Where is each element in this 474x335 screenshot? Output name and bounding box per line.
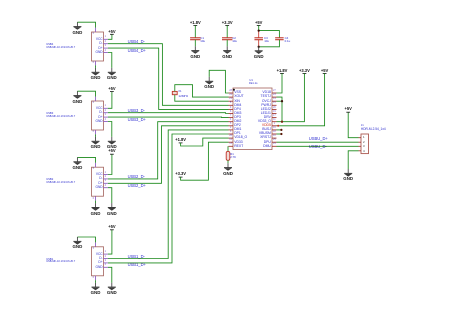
wire USB4 bottom shield text [0, 0, 474, 1]
wire USB3 bottom shield text [0, 0, 474, 1]
node VBUSM no-connect [280, 133, 282, 135]
IC U1 FE1.1s hub chip body and pins [229, 88, 277, 150]
label USB2 designator text [0, 0, 474, 1]
wire C2 to ground [226, 40, 228, 47]
junction OVCJ text [0, 0, 474, 1]
ground flag header [344, 169, 352, 177]
connector J1 header body and pins [359, 134, 369, 154]
junction C3 bottom text [0, 0, 474, 1]
wire USB3 GND pin [108, 122, 112, 137]
net label USB1_D+ text [0, 0, 474, 1]
wire USB2 VCC supply text [0, 0, 474, 1]
wire USB2 shield to ground text [0, 0, 474, 1]
ground flag C2 [223, 46, 231, 54]
wire USB4 VCC supply [108, 34, 112, 39]
wire C1 to ground [194, 40, 196, 47]
wire USB4 shield to ground [77, 22, 95, 27]
wire USB3_D- to DM3 [108, 112, 229, 115]
connector USB2 body and pins text [0, 0, 474, 1]
label U1 designator text [0, 0, 474, 1]
label USB3 designator text [0, 0, 474, 1]
wire USB2 bottom shield [95, 201, 97, 204]
junction C3 top [258, 29, 260, 31]
ground flag USB3 bottom [92, 137, 100, 145]
capacitor C4 [275, 38, 284, 40]
ground flag USB1 bottom [92, 283, 100, 291]
capacitor C1 [190, 38, 200, 40]
wire BUSJ stub [277, 129, 282, 131]
power flag +5V USB3 [110, 91, 114, 93]
label X1 designator text [0, 0, 474, 1]
crystal X1 [172, 91, 177, 94]
wire REXT to R1 [227, 146, 229, 151]
net label USB4_D+ text [0, 0, 474, 1]
power flag +5V over C3 [257, 24, 261, 26]
wire USB3 shield to ground [77, 91, 95, 96]
wire USB2 shield to ground [77, 157, 95, 162]
wire USB3 shield to ground text [0, 0, 474, 1]
resistor R1 [226, 151, 230, 160]
wire USB4 shield to ground text [0, 0, 474, 1]
ground flag C3 C4 [255, 46, 263, 54]
ground flag USB2 shield [73, 157, 81, 165]
ground flag C1 text [0, 0, 474, 1]
ground flag USB3 shield [73, 91, 81, 99]
net label USBU_D- text [0, 0, 474, 1]
power flag +5V USB2 [110, 153, 114, 155]
wire X1 bottom to XIN [175, 95, 229, 102]
power flag +1.8V to VD18_O [179, 142, 183, 144]
wire USB3_D+ to DP3 [108, 116, 229, 119]
ground flag C1 [191, 46, 199, 54]
wire R1 to ground [227, 160, 229, 163]
wire VSS to ground text [0, 0, 474, 1]
connector J1 header body and pins text [0, 0, 474, 1]
wire USB2 bottom shield text [0, 0, 474, 1]
ground flag C3 C4 text [0, 0, 474, 1]
power flag +5V right of U1 [323, 72, 327, 74]
ground flag USB4 right [108, 68, 116, 76]
connector USB3 body and pins [92, 97, 108, 135]
wire USB4_D+ to DP4 [108, 48, 229, 109]
wire R1 to ground text [0, 0, 474, 1]
wire USB1 bottom shield [95, 280, 97, 283]
wire OVCJ stub [277, 100, 283, 102]
wire C3 C4 top rail [259, 31, 280, 38]
wire +1.8V to VD18_O pin text [0, 0, 474, 1]
connector USB3 body and pins text [0, 0, 474, 1]
power flag +1.8V right of U1 [280, 72, 284, 74]
label C3 value text [0, 0, 474, 1]
junction VD33_O text [0, 0, 474, 1]
power flag +3.3V over C2 [225, 24, 229, 26]
ground flag C2 text [0, 0, 474, 1]
wire X1 top to XOUT [175, 85, 229, 97]
junction C3 bottom [258, 46, 260, 48]
wire USB1_D- to DM1 [108, 130, 229, 259]
wire USB2 GND pin [108, 188, 112, 203]
net label USBU_D+ text [0, 0, 474, 1]
wire USB1 GND pin text [0, 0, 474, 1]
wire USB4 VCC supply text [0, 0, 474, 1]
wire C3 bottom lead [258, 40, 260, 47]
wire USB1 VCC supply [108, 230, 112, 254]
wire C2 to ground text [0, 0, 474, 1]
label C2 value text [0, 0, 474, 1]
wire +5V to VDD5 [277, 73, 325, 125]
wire +3.3V to C2 [226, 25, 228, 37]
power flag +5V USB1 [110, 229, 114, 231]
wire USB1 VCC supply text [0, 0, 474, 1]
wire DMU to header pin 3 [277, 145, 359, 147]
capacitor C2 [222, 38, 232, 40]
wire VSS to ground [209, 70, 228, 93]
wire DPU to header pin 2 [277, 141, 359, 143]
wire C3 top lead [258, 31, 260, 38]
wire USB1 shield to ground text [0, 0, 474, 1]
wire C1 to ground text [0, 0, 474, 1]
ground flag USB4 bottom [92, 68, 100, 76]
label USB4 designator text [0, 0, 474, 1]
node VDD5 pin dot [277, 125, 279, 127]
ground flag USB4 shield [73, 22, 81, 30]
wire VBUSM stub [277, 133, 282, 135]
net label USB2_D+ text [0, 0, 474, 1]
wire USB2_D+ to DP2 [108, 126, 229, 184]
power flag +5V USB4 [110, 33, 114, 35]
junction OVCJ [281, 100, 283, 102]
wire USB3 VCC supply text [0, 0, 474, 1]
ground flag USB1 shield [73, 237, 81, 245]
power flag +5V header [346, 111, 350, 113]
connector USB2 body and pins [92, 163, 108, 201]
wire USB1 shield to ground [77, 237, 95, 242]
label R1 value text [0, 0, 474, 1]
connector USB1 body and pins text [0, 0, 474, 1]
wire USB4 GND pin [108, 53, 112, 68]
ground flag USB1 right [108, 283, 116, 291]
wire TESTJ OVCJ tie [277, 97, 283, 122]
ground flag USB2 bottom [92, 203, 100, 211]
wire C3 C4 bottom rail [259, 40, 280, 47]
label J1 designator text [0, 0, 474, 1]
wire +1.8V to VD18 [277, 73, 283, 93]
wire USB3 bottom shield [95, 134, 97, 137]
wire USB3 VCC supply [108, 92, 112, 109]
label C4 value text [0, 0, 474, 1]
ground flag near U1 VSS [205, 77, 213, 85]
net label USB3_D- text [0, 0, 474, 1]
wire +5V to junction [258, 25, 260, 30]
capacitor C3 [254, 38, 263, 40]
wire header pin4 to ground text [0, 0, 474, 1]
wire USB4 GND pin text [0, 0, 474, 1]
wire header pin1 to +5V [348, 112, 358, 138]
power flag +3.3V right of U1 [303, 72, 307, 74]
ground flag R1 [224, 163, 232, 171]
wire USB2 GND pin text [0, 0, 474, 1]
net label USB3_D+ text [0, 0, 474, 1]
wire USB2 VCC supply [108, 154, 112, 174]
wire +3.3V to VD33 pin [181, 142, 229, 180]
wire USB3 GND pin text [0, 0, 474, 1]
net label USB4_D- text [0, 0, 474, 1]
ground flag USB2 right [108, 203, 116, 211]
label USB1 designator text [0, 0, 474, 1]
net label USB1_D- text [0, 0, 474, 1]
label C1 value text [0, 0, 474, 1]
connector USB4 body and pins text [0, 0, 474, 1]
ground flag USB3 right [108, 137, 116, 145]
wire +1.8V to C1 [194, 25, 196, 37]
power flag +3.3V to VD33 [179, 176, 183, 178]
wire header pin1 to +5V text [0, 0, 474, 1]
net label USB2_D- text [0, 0, 474, 1]
IC U1 FE1.1s hub chip body and pins text [0, 0, 474, 1]
wire USB2_D- to DM2 [108, 122, 229, 179]
power flag +1.8V over C1 [193, 24, 197, 26]
wire USB1 GND pin [108, 267, 112, 282]
ground flag R1 text [0, 0, 474, 1]
wire USB4_D- to DM4 [108, 44, 229, 106]
wire USB1 bottom shield text [0, 0, 474, 1]
wire USB4 bottom shield [95, 65, 97, 68]
wire header pin4 to ground [348, 151, 358, 169]
wire +3.3V to VD33_O [277, 73, 305, 121]
node BUSJ no-connect [280, 129, 282, 131]
connector USB4 body and pins [92, 28, 108, 66]
wire +1.8V to VD18_O pin [181, 138, 229, 146]
connector USB1 body and pins [92, 242, 108, 280]
wire USB1_D+ to DP1 [108, 134, 229, 263]
junction VD33_O [281, 121, 283, 123]
